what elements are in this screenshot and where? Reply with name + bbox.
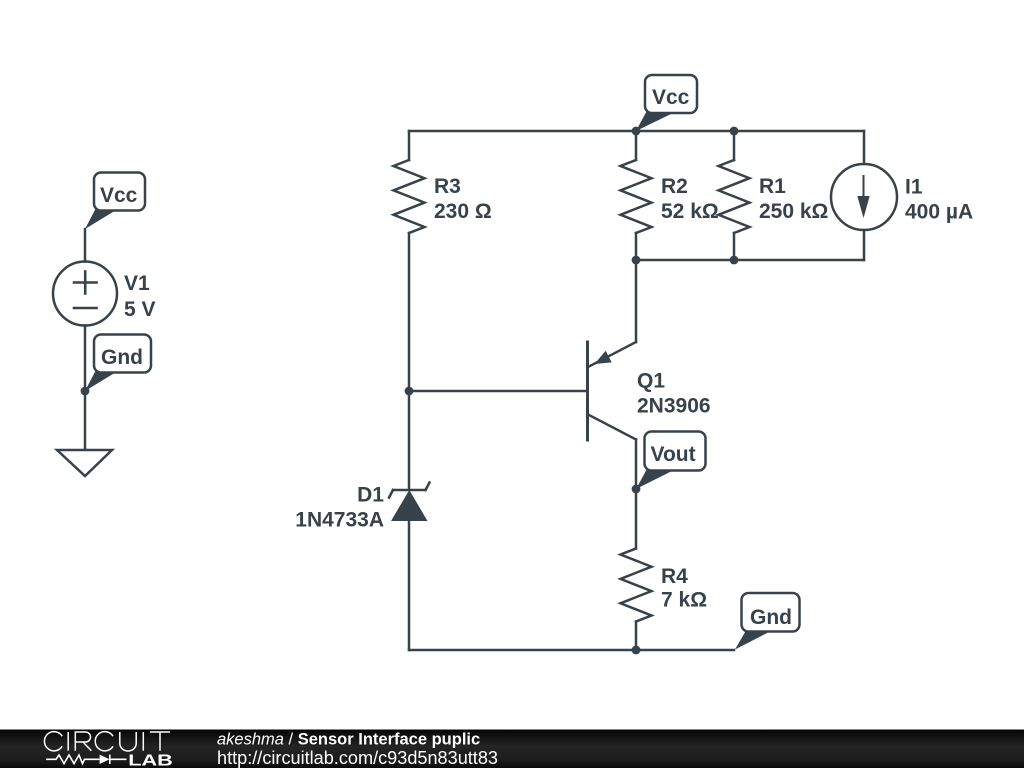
svg-text:akeshma / Sensor Interface pup: akeshma / Sensor Interface puplic xyxy=(217,731,480,749)
svg-text:Gnd: Gnd xyxy=(750,606,792,629)
svg-text:230 Ω: 230 Ω xyxy=(434,200,492,223)
svg-text:LAB: LAB xyxy=(128,753,173,768)
svg-text:7 kΩ: 7 kΩ xyxy=(661,589,707,612)
svg-text:Q1: Q1 xyxy=(637,370,665,393)
svg-text:250 kΩ: 250 kΩ xyxy=(759,200,828,223)
svg-text:Vcc: Vcc xyxy=(100,184,138,207)
svg-text:Gnd: Gnd xyxy=(101,346,143,369)
svg-text:R2: R2 xyxy=(661,175,688,198)
svg-text:R4: R4 xyxy=(661,565,688,588)
svg-text:I1: I1 xyxy=(905,176,923,199)
svg-text:Vcc: Vcc xyxy=(652,86,690,109)
svg-text:V1: V1 xyxy=(124,272,150,295)
svg-text:5 V: 5 V xyxy=(124,298,156,321)
svg-text:52 kΩ: 52 kΩ xyxy=(661,200,719,223)
svg-text:http://circuitlab.com/c93d5n83: http://circuitlab.com/c93d5n83utt83 xyxy=(217,748,498,768)
svg-text:1N4733A: 1N4733A xyxy=(295,509,384,532)
svg-text:D1: D1 xyxy=(357,484,384,507)
svg-text:400 µA: 400 µA xyxy=(905,201,973,224)
svg-text:Vout: Vout xyxy=(651,443,696,466)
svg-text:R1: R1 xyxy=(759,175,786,198)
svg-text:2N3906: 2N3906 xyxy=(637,395,711,418)
svg-text:R3: R3 xyxy=(434,175,461,198)
